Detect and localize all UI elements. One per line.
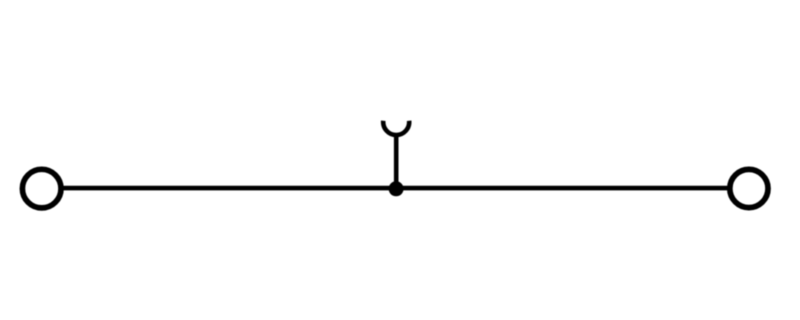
tap / current-collector symbol (open semicircle cup) [383,121,409,135]
wire (horizontal conductor between terminals) [64,186,728,191]
terminal right (open circle) [730,169,768,207]
junction dot (node) [389,181,404,196]
terminal left (open circle) [22,169,61,208]
wire (vertical stub from junction up to collector symbol) [394,135,399,189]
